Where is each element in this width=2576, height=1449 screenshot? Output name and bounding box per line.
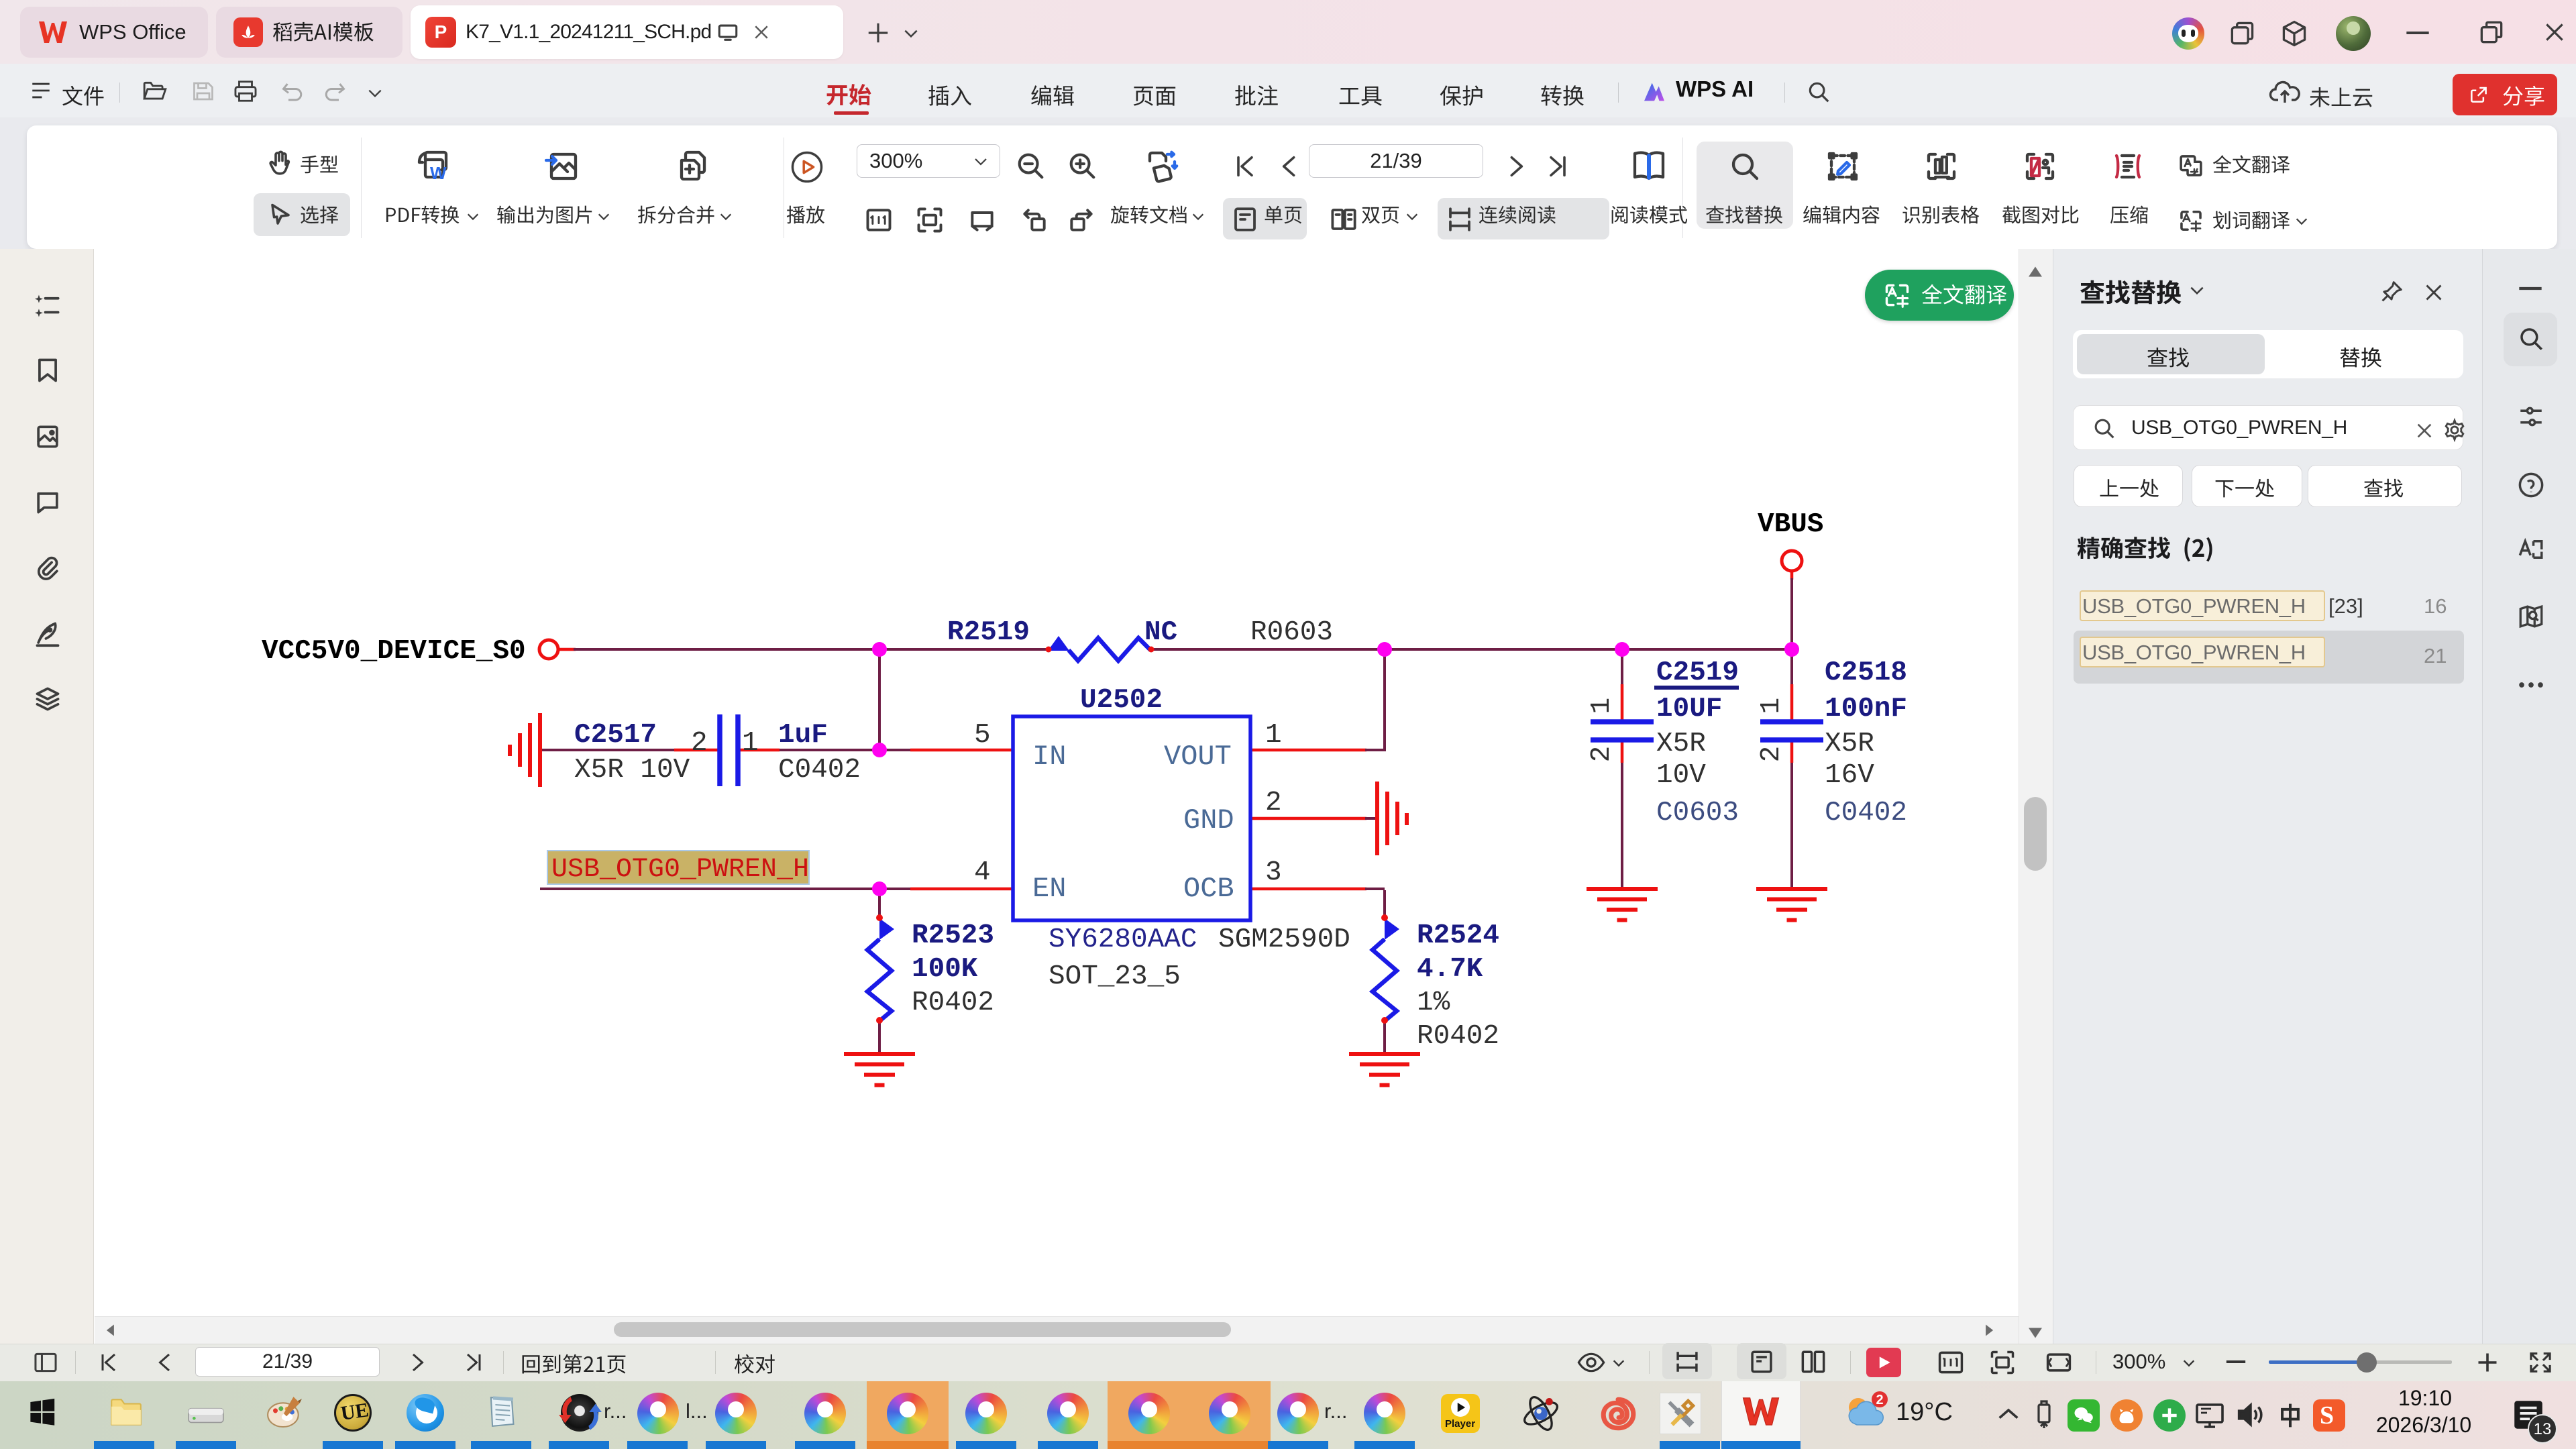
UE editor <box>334 1394 372 1432</box>
junction nodes (solder dots) <box>872 642 1799 896</box>
svg-text:C0402: C0402 <box>1825 798 1907 828</box>
wire: pin3 OCB to R2524 <box>1250 889 1385 918</box>
svg-text:R2523: R2523 <box>912 920 994 951</box>
weather <box>1841 1390 1889 1434</box>
svg-text:1: 1 <box>1756 698 1787 714</box>
svg-text:NC: NC <box>1144 617 1177 648</box>
swirl <box>965 1393 1007 1434</box>
screwdriver tool <box>1660 1393 1701 1434</box>
wire: C2518 branch <box>1790 649 1793 889</box>
WPS active tile <box>1721 1381 1801 1449</box>
svg-text:OCB: OCB <box>1183 873 1234 905</box>
capacitor C2519 (10UF X5R 10V C0603) <box>1591 722 1654 740</box>
row2 small icons <box>864 205 894 235</box>
svg-text:GND: GND <box>1183 804 1234 837</box>
svg-text:1%: 1% <box>1417 987 1450 1018</box>
swirl l <box>637 1393 679 1434</box>
tab: active pdf <box>411 5 843 59</box>
svg-text:1: 1 <box>1265 720 1282 751</box>
buttons <box>2074 465 2183 507</box>
svg-text:R2524: R2524 <box>1417 920 1499 951</box>
edit content <box>1826 150 1860 182</box>
tray <box>1995 1405 2022 1422</box>
resistor R2523 (100K R0402) <box>867 914 894 1024</box>
swirl <box>804 1393 846 1434</box>
find replace pill <box>1697 142 1793 229</box>
svg-text:USB_OTG0_PWREN_H: USB_OTG0_PWREN_H <box>551 855 809 885</box>
svg-text:C2519: C2519 <box>1656 657 1739 688</box>
continuous pill <box>1438 198 1609 239</box>
svg-text:R2519: R2519 <box>947 617 1030 648</box>
notepad <box>484 1393 519 1432</box>
ground (earth) at C2517 <box>510 713 540 787</box>
svg-text:3: 3 <box>1265 857 1282 888</box>
search input <box>2073 405 2463 450</box>
right window icons <box>2172 17 2204 50</box>
wire: main VCC5V0 rail <box>559 648 1792 651</box>
svg-text:16V: 16V <box>1825 760 1874 791</box>
op-amp U2502 load switch body <box>1013 716 1250 920</box>
atom <box>1520 1393 1562 1434</box>
wire: node to R2523 <box>878 889 881 1054</box>
tab: templates <box>216 7 402 58</box>
PDF convert <box>415 149 452 184</box>
svg-text:1: 1 <box>1587 698 1617 714</box>
svg-text:X5R: X5R <box>1825 729 1874 759</box>
play <box>790 150 824 184</box>
svg-text:2: 2 <box>1876 1393 1883 1407</box>
svg-text:10V: 10V <box>1656 760 1706 791</box>
svg-text:100nF: 100nF <box>1825 694 1907 724</box>
svg-text:R0402: R0402 <box>1417 1021 1499 1052</box>
orange tile single <box>867 1381 949 1449</box>
tabs <box>2073 330 2463 378</box>
scrollbar thumbs & arrows <box>2024 797 2047 871</box>
zoom box <box>857 144 1000 178</box>
svg-text:IN: IN <box>1032 741 1066 773</box>
screenshot compare <box>2023 150 2057 182</box>
group: hand / select <box>266 149 292 177</box>
reading mode book <box>1630 149 1668 184</box>
paint palette <box>266 1394 303 1430</box>
tab: WPS Office <box>20 7 208 58</box>
split merge <box>676 149 711 184</box>
svg-text:2: 2 <box>1756 746 1787 763</box>
ground at C2518 <box>1756 889 1827 920</box>
wire: VBUS riser <box>1790 571 1794 649</box>
capacitor C2518 (100nF X5R 16V C0402) <box>1760 722 1823 740</box>
svg-text:C2518: C2518 <box>1825 657 1907 688</box>
format converter <box>561 1394 598 1432</box>
svg-text:100K: 100K <box>912 954 978 985</box>
nav arrows <box>1232 153 1258 180</box>
swirl <box>1364 1393 1405 1434</box>
status right <box>1576 1350 1606 1375</box>
compress <box>2111 150 2145 182</box>
capacitor C2517 (1uF X5R 10V C0402) <box>720 714 738 786</box>
wire: R2524 to ground <box>1383 1021 1386 1054</box>
ground at C2519 <box>1587 889 1658 920</box>
wire: pin2 GND lead <box>1250 817 1377 820</box>
swirl <box>1047 1393 1089 1434</box>
net label USB_OTG0_PWREN_H (search highlight) <box>547 851 809 885</box>
drive <box>186 1401 225 1428</box>
svg-text:SY6280AAC: SY6280AAC <box>1049 924 1197 955</box>
new tab + <box>865 20 891 46</box>
node VBUS terminal <box>1782 551 1802 571</box>
svg-text:SGM2590D: SGM2590D <box>1218 924 1350 955</box>
quick icons <box>142 79 168 103</box>
wire: drop to C2517/IN node <box>878 649 881 750</box>
svg-text:2: 2 <box>1265 788 1282 818</box>
svg-text:2: 2 <box>1587 746 1617 763</box>
export image <box>545 149 580 184</box>
table recognize <box>1925 150 1958 182</box>
svg-text:C2517: C2517 <box>574 720 657 751</box>
wire: C2519 branch <box>1621 649 1623 889</box>
wire: C2517 row <box>541 749 910 751</box>
svg-text:X5R 10V: X5R 10V <box>574 755 690 786</box>
browser <box>407 1394 444 1432</box>
right strip icons <box>2517 284 2544 292</box>
svg-text:R0402: R0402 <box>912 987 994 1018</box>
swirl <box>715 1393 757 1434</box>
rotate doc big icon <box>1144 149 1181 184</box>
double page <box>1330 205 1358 233</box>
svg-text:R0603: R0603 <box>1250 617 1333 648</box>
svg-text:1uF: 1uF <box>778 720 828 751</box>
wire: pin5 IN lead <box>910 749 1013 752</box>
orange tile double <box>1108 1381 1271 1449</box>
svg-text:C0603: C0603 <box>1656 798 1739 828</box>
svg-text:2: 2 <box>691 728 708 759</box>
player <box>1441 1394 1480 1433</box>
svg-text:EN: EN <box>1032 873 1066 905</box>
svg-text:U2502: U2502 <box>1080 685 1163 716</box>
svg-text:5: 5 <box>974 720 991 751</box>
folder <box>107 1395 144 1429</box>
single page pill <box>1223 198 1307 239</box>
ground at R2524 <box>1349 1054 1420 1085</box>
resistor R2519 (NC, R0603) <box>1046 636 1155 661</box>
svg-text:1: 1 <box>742 728 759 759</box>
clock <box>2375 1386 2475 1411</box>
node VCC5V0_DEVICE_S0 terminal <box>539 640 558 659</box>
notifications <box>2510 1397 2546 1433</box>
panel header <box>2188 284 2206 297</box>
svg-text:SOT_23_5: SOT_23_5 <box>1049 961 1181 992</box>
menu items <box>825 74 826 76</box>
svg-text:VCC5V0_DEVICE_S0: VCC5V0_DEVICE_S0 <box>262 636 526 667</box>
ground at R2523 <box>844 1054 915 1085</box>
svg-text:VOUT: VOUT <box>1164 741 1232 773</box>
swirl r <box>1277 1393 1319 1434</box>
svg-text:VBUS: VBUS <box>1758 509 1823 540</box>
svg-text:4.7K: 4.7K <box>1417 954 1483 985</box>
WPS AI <box>1641 79 1668 105</box>
cloud / share <box>2269 78 2301 106</box>
snail <box>1599 1397 1637 1432</box>
full translate (two-line) <box>2178 153 2204 178</box>
svg-text:C0402: C0402 <box>778 755 861 786</box>
resistor R2524 (4.7K 1% R0402) <box>1373 914 1399 1024</box>
svg-text:10UF: 10UF <box>1656 694 1722 724</box>
windows start <box>27 1397 58 1428</box>
svg-text:X5R: X5R <box>1656 729 1706 759</box>
wire: pin1 VOUT to rail <box>1250 649 1385 751</box>
results <box>2075 544 2076 545</box>
green translate pill over page <box>1865 270 2014 321</box>
svg-text:4: 4 <box>974 857 991 888</box>
wire: EN net row <box>540 888 1013 890</box>
ground (earth) at GND pin <box>1377 782 1407 855</box>
